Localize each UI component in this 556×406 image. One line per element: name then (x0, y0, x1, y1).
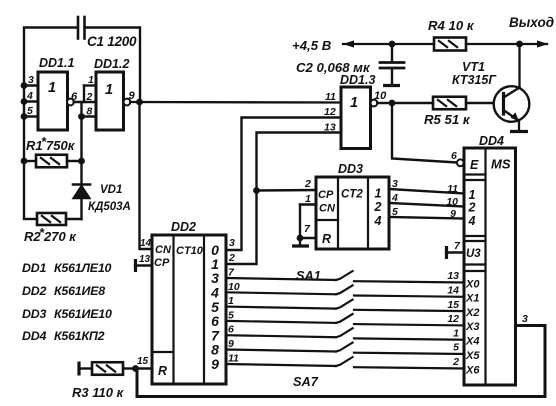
svg-text:1: 1 (453, 327, 459, 339)
svg-text:R4 10 к: R4 10 к (428, 18, 475, 33)
svg-text:К561ИЕ8: К561ИЕ8 (54, 284, 105, 298)
output pin 6 bubble (67, 99, 74, 106)
node R1 right (78, 158, 85, 165)
pin 13 common stub (135, 264, 152, 266)
node output junction (389, 100, 396, 107)
svg-text:Выход: Выход (509, 15, 554, 30)
wire riser to RC network (80, 102, 82, 219)
pin 8 (82, 115, 97, 117)
svg-text:9: 9 (228, 338, 234, 350)
svg-text:К561КП2: К561КП2 (54, 329, 105, 343)
svg-text:4: 4 (468, 214, 476, 228)
wire DD2 pin 5 (226, 321, 336, 323)
wire riser to DD4 E (392, 103, 457, 163)
pin 1 (84, 84, 96, 86)
svg-text:2: 2 (86, 91, 93, 103)
svg-text:13: 13 (324, 122, 336, 134)
svg-text:SA7: SA7 (293, 374, 319, 389)
svg-text:DD4: DD4 (479, 134, 504, 148)
svg-text:X2: X2 (465, 307, 479, 319)
pin 1 CN tie (300, 203, 316, 205)
svg-text:DD3: DD3 (22, 307, 46, 321)
wire riser to DD2 CN pin 14 (140, 102, 153, 249)
wire DD2 pin 1 (226, 307, 336, 309)
node dots on input bus (21, 82, 28, 89)
DD2 pin 3 wire to DD1.3 pin 12 (226, 118, 341, 251)
svg-text:2: 2 (452, 356, 459, 368)
svg-text:10: 10 (374, 90, 387, 102)
svg-text:5: 5 (27, 105, 33, 117)
wire DD2 pin 11 (226, 364, 336, 366)
wire DD3 pin5 to DD4 pin9 (389, 217, 464, 219)
svg-text:1: 1 (375, 187, 382, 201)
svg-text:R: R (158, 364, 167, 378)
diode VD1 КД503А (73, 183, 90, 186)
node clock junction (136, 99, 143, 106)
svg-text:2: 2 (228, 252, 235, 264)
wire DD4 pin 14 (354, 296, 464, 297)
wire DD4 pin 13 (354, 281, 464, 282)
svg-text:VD1: VD1 (100, 184, 122, 196)
wire DD3 pin3 to DD4 pin11 (389, 189, 464, 194)
wire DD3 pin4 to DD4 pin10 (389, 203, 464, 207)
output arrow Выход (537, 40, 548, 47)
svg-text:К561ИЕ10: К561ИЕ10 (54, 307, 112, 321)
wire DD4 pin 15 (354, 310, 464, 311)
pin 4 (24, 100, 38, 102)
svg-text:5: 5 (228, 309, 234, 321)
svg-text:CP: CP (318, 189, 334, 201)
svg-text:9: 9 (129, 90, 136, 102)
svg-text:DD1.3: DD1.3 (340, 73, 375, 87)
wire DD2 pin 7 (226, 278, 336, 280)
ground emitter (510, 130, 528, 133)
svg-text:E: E (470, 158, 479, 172)
svg-text:DD4: DD4 (22, 329, 46, 343)
svg-text:5: 5 (392, 206, 398, 218)
gate DD1.1 (38, 72, 68, 130)
svg-text:2: 2 (304, 178, 311, 190)
svg-text:X5: X5 (465, 350, 480, 362)
resistor R4 (434, 38, 466, 51)
svg-text:C2 0,068 мк: C2 0,068 мк (296, 60, 371, 75)
svg-text:DD1.2: DD1.2 (94, 57, 129, 71)
output pin 9 bubble (124, 99, 131, 106)
svg-text:CN: CN (319, 203, 336, 215)
counter DD3 CT2 (316, 177, 389, 249)
pin 6 bubble (457, 159, 464, 166)
wire DD4 pin 5 (354, 353, 464, 354)
svg-text:3: 3 (392, 178, 398, 190)
switch lever 2 (335, 285, 354, 295)
X inputs sub-box (464, 270, 486, 272)
DD2 pin 2 wire to DD1.3 pin 13 (226, 133, 341, 265)
gate DD1.3 (341, 87, 371, 149)
svg-text:8: 8 (87, 106, 93, 118)
svg-text:12: 12 (447, 313, 459, 325)
resistor R1 (24, 160, 36, 162)
svg-text:1: 1 (88, 74, 94, 86)
svg-text:2: 2 (468, 201, 476, 215)
capacitor C2 (389, 41, 396, 48)
wire pin 10 to R5 (377, 102, 433, 104)
svg-text:270 к: 270 к (43, 229, 77, 244)
wire tap to DD3 CP (257, 189, 317, 192)
svg-text:VT1: VT1 (462, 60, 485, 74)
resistor R5 (433, 97, 466, 110)
svg-text:U3: U3 (466, 248, 481, 260)
svg-text:1: 1 (105, 82, 113, 98)
svg-text:14: 14 (447, 285, 459, 297)
svg-text:6: 6 (451, 150, 457, 162)
svg-text:CT2: CT2 (341, 189, 363, 201)
svg-text:10: 10 (446, 196, 458, 208)
svg-text:DD2: DD2 (171, 220, 196, 234)
wire top-left feedback loop (24, 28, 77, 220)
node R3 / pin15 junction (132, 365, 139, 372)
DD2 R sub-box (152, 351, 174, 353)
svg-text:R5 51 к: R5 51 к (424, 112, 471, 127)
counter DD2 CT10 (152, 235, 226, 384)
capacitor C1 (77, 17, 80, 39)
svg-text:14: 14 (140, 238, 152, 249)
wire DD4 pin 12 (354, 324, 464, 325)
svg-text:X0: X0 (465, 278, 480, 290)
E strobe sub-box (464, 173, 486, 175)
svg-text:КД503А: КД503А (88, 201, 131, 213)
switch lever 5 (335, 328, 354, 338)
svg-text:2: 2 (374, 200, 382, 214)
switch lever 1 (335, 271, 354, 281)
switch lever 3 (335, 299, 354, 309)
wire pin1 tie-down (83, 86, 85, 103)
switch lever 4 (335, 313, 354, 323)
svg-text:9: 9 (211, 356, 219, 372)
transistor VT1 КТ315Г (494, 86, 530, 122)
svg-text:X6: X6 (465, 364, 480, 376)
node DD3 clock tap (253, 187, 260, 194)
wire DD4 pin 2 (354, 367, 464, 368)
output pin 3 wire to reset rail (137, 326, 545, 397)
pin 7 R tie (300, 237, 316, 239)
DD3 R sub-box (316, 219, 338, 221)
node pin8 junction (78, 113, 85, 120)
svg-text:X3: X3 (465, 321, 479, 333)
svg-text:13: 13 (447, 270, 459, 282)
address sub-box 1 2 4 (464, 179, 486, 181)
pin 3 (24, 84, 38, 86)
svg-text:DD1: DD1 (22, 261, 46, 275)
svg-text:R3 110 к: R3 110 к (72, 385, 125, 400)
svg-text:4: 4 (391, 192, 398, 204)
wire DD2 pin 10 (226, 292, 336, 294)
svg-text:12: 12 (324, 106, 336, 118)
svg-text:CN: CN (155, 244, 172, 256)
svg-text:10: 10 (228, 281, 240, 293)
svg-text:R: R (322, 232, 331, 246)
svg-text:9: 9 (450, 208, 456, 220)
resistor R2 (24, 218, 37, 220)
wire DD2 pin 6 (226, 335, 336, 337)
gate DD1.2 (96, 72, 124, 130)
svg-text:11: 11 (228, 353, 239, 365)
svg-text:1: 1 (48, 80, 56, 96)
switch lever 6 (335, 342, 354, 352)
svg-text:1: 1 (305, 193, 311, 205)
svg-text:6: 6 (228, 324, 234, 336)
svg-text:DD1.1: DD1.1 (39, 56, 74, 70)
svg-text:X4: X4 (465, 336, 479, 348)
node collector junction (516, 41, 523, 48)
wire DD2 pin 9 (226, 350, 336, 352)
svg-text:КТ315Г: КТ315Г (452, 73, 497, 87)
svg-text:DD3: DD3 (338, 162, 363, 176)
svg-text:3: 3 (522, 313, 528, 325)
svg-text:5: 5 (453, 342, 459, 354)
resistor R3 (80, 367, 92, 369)
wire clock node 9 to DD1.3 pin 11 (130, 101, 341, 104)
svg-text:1: 1 (228, 295, 234, 307)
svg-text:X1: X1 (465, 293, 479, 305)
svg-text:1: 1 (350, 95, 358, 111)
node R1 left (21, 158, 28, 165)
svg-text:750к: 750к (46, 138, 76, 153)
svg-text:К561ЛЕ10: К561ЛЕ10 (54, 261, 112, 275)
svg-text:+4,5 В: +4,5 В (292, 38, 332, 53)
svg-text:13: 13 (139, 254, 151, 265)
wire DD4 pin 1 (354, 338, 464, 339)
common stub DD3 (299, 238, 301, 245)
svg-text:DD2: DD2 (22, 284, 46, 298)
svg-text:C1 1200: C1 1200 (87, 34, 137, 49)
svg-text:4: 4 (374, 214, 382, 228)
multiplexer DD4 MS (464, 148, 516, 385)
U3 sub-box (464, 240, 486, 242)
pin 7 common stub (446, 251, 464, 253)
svg-text:CT10: CT10 (176, 245, 204, 257)
svg-text:11: 11 (325, 91, 336, 103)
svg-text:15: 15 (447, 299, 459, 311)
svg-text:3: 3 (229, 237, 235, 249)
pin 15 reset input (135, 367, 152, 369)
output pin 10 bubble (371, 100, 378, 107)
svg-text:MS: MS (491, 157, 511, 172)
svg-text:SA1: SA1 (296, 268, 321, 283)
wire pin6 to DD1.2 pin2 (74, 101, 96, 103)
svg-text:CP: CP (154, 257, 170, 269)
pin 5 (24, 115, 38, 117)
switch lever 7 (335, 357, 354, 367)
svg-text:3: 3 (28, 74, 34, 86)
wire C1 to DD1.2 output node (85, 28, 141, 103)
svg-text:15: 15 (137, 356, 149, 367)
svg-text:11: 11 (447, 183, 458, 195)
